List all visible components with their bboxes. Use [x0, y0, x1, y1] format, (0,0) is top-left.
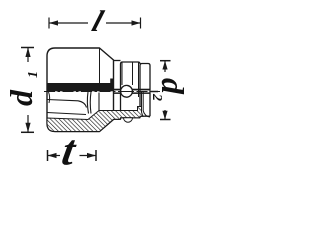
hex cavity facet lines (lower half)	[47, 100, 87, 108]
black shadow line below centerline (drive end)	[114, 92, 151, 94]
black shadow band (front body)	[47, 83, 114, 91]
pin hole groove notch (bottom)	[124, 118, 133, 123]
drive end step (bottom)	[114, 118, 121, 120]
collar bottom edges	[121, 117, 141, 119]
drive end collar outline	[121, 62, 141, 119]
centerline	[44, 91, 160, 93]
hex cavity back corner	[87, 92, 88, 114]
chamfer edge line	[99, 49, 101, 84]
drive end step (top)	[114, 60, 121, 62]
dimension l	[49, 18, 141, 29]
label d1 (rotated)	[3, 71, 41, 106]
pin hole circle	[121, 85, 133, 97]
dimension d2	[160, 61, 171, 120]
collar vertical detail lines	[121, 62, 123, 85]
svg-text:d: d	[155, 78, 191, 95]
square drive cavity wall line	[98, 93, 100, 111]
label d2 (rotated)	[149, 78, 191, 101]
svg-text:2: 2	[149, 93, 164, 101]
black shadow line under collar (drive end)	[114, 89, 151, 91]
svg-text:d: d	[3, 89, 39, 106]
square cavity back chamfer edges	[141, 92, 143, 112]
socket body outline (front hex end)	[47, 48, 114, 132]
right edge shadow blob	[110, 79, 113, 84]
dimension t	[48, 150, 97, 161]
hex entry chamfer at front face	[49, 92, 50, 103]
dimension d1	[21, 48, 34, 133]
hatched wall under hex cavity	[47, 107, 143, 132]
centerline end mark	[151, 91, 158, 93]
svg-text:1: 1	[26, 71, 41, 78]
